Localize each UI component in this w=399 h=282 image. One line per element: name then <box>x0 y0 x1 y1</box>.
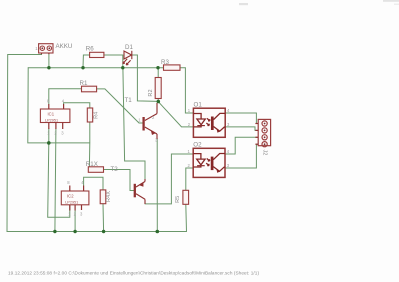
svg-text:R6: R6 <box>86 46 94 53</box>
svg-text:O2: O2 <box>193 142 202 149</box>
svg-text:T2: T2 <box>111 166 119 173</box>
svg-text:R3: R3 <box>161 59 169 66</box>
svg-text:D1: D1 <box>125 44 133 51</box>
svg-text:19.12.2012 23:55:08 f=2.00 C: 19.12.2012 23:55:08 f=2.00 C:\Dokumente … <box>8 271 259 276</box>
svg-text:R4X: R4X <box>106 191 112 202</box>
svg-text:LP2951: LP2951 <box>45 118 58 122</box>
svg-text:O1: O1 <box>194 102 203 109</box>
svg-text:T1: T1 <box>125 97 133 104</box>
svg-text:R1X: R1X <box>86 161 98 168</box>
svg-text:J2: J2 <box>262 150 268 156</box>
svg-text:IC2: IC2 <box>67 194 74 199</box>
svg-text:LP2951: LP2951 <box>65 201 78 205</box>
svg-text:R2: R2 <box>148 89 154 96</box>
svg-text:R4: R4 <box>94 112 100 119</box>
svg-text:R5: R5 <box>175 196 181 203</box>
svg-text:R1: R1 <box>80 80 88 87</box>
svg-text:AKKU: AKKU <box>56 43 73 50</box>
svg-text:IC1: IC1 <box>48 112 55 117</box>
